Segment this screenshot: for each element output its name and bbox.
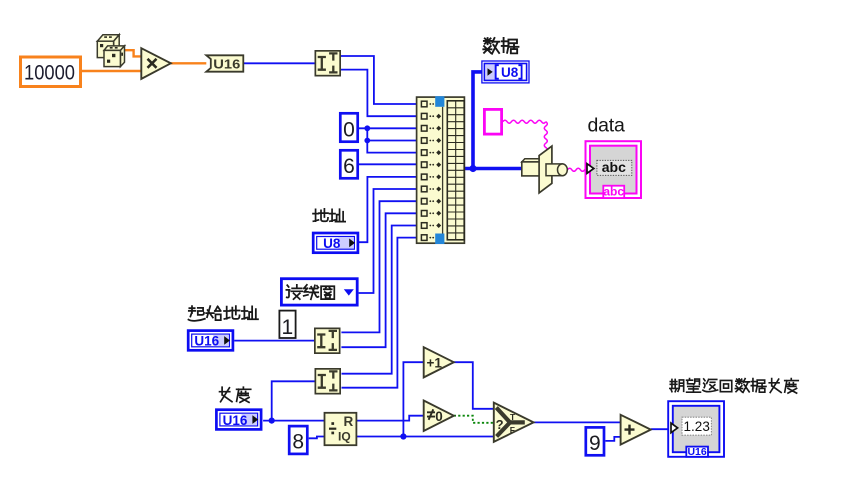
label 期望返回数据长度 bbox=[670, 379, 798, 394]
constant 6 bbox=[340, 150, 357, 178]
wire bbox=[473, 72, 482, 169]
wire bbox=[544, 122, 547, 152]
svg-text:1.23: 1.23 bbox=[684, 419, 710, 434]
add node bbox=[621, 415, 651, 445]
junction bbox=[269, 418, 275, 424]
svg-text:0: 0 bbox=[435, 409, 443, 424]
junction bbox=[469, 165, 476, 172]
control terminal U8 地址 bbox=[313, 233, 358, 253]
quotient and remainder node bbox=[325, 413, 357, 445]
wire bbox=[356, 436, 494, 438]
To U16 conversion node bbox=[206, 55, 243, 71]
svg-text:8: 8 bbox=[292, 431, 304, 454]
constant 0 bbox=[340, 113, 357, 141]
wire bbox=[367, 128, 416, 152]
increment node +1 bbox=[424, 347, 454, 377]
build array input terminals bbox=[421, 101, 427, 240]
svg-text:U8: U8 bbox=[323, 236, 341, 251]
build array resize handle top bbox=[435, 96, 444, 107]
wire bbox=[82, 70, 141, 72]
wire bbox=[341, 213, 416, 347]
junction bbox=[400, 433, 406, 439]
svg-text:10000: 10000 bbox=[24, 62, 75, 85]
svg-text:T: T bbox=[510, 412, 516, 422]
svg-text:U16: U16 bbox=[223, 413, 248, 428]
wire bbox=[359, 177, 417, 242]
select node bbox=[494, 403, 534, 442]
wire bbox=[171, 62, 207, 64]
not equal to zero node bbox=[424, 401, 454, 432]
wire bbox=[454, 416, 494, 423]
wire bbox=[356, 416, 423, 421]
wire bbox=[359, 163, 417, 165]
wire bbox=[605, 437, 620, 441]
svg-text:U8: U8 bbox=[501, 65, 519, 80]
svg-text:9: 9 bbox=[589, 432, 601, 455]
control terminal U16 起始地址 bbox=[188, 331, 233, 351]
wire bbox=[341, 201, 416, 332]
build array input dots and arrows bbox=[429, 103, 441, 238]
svg-text:R: R bbox=[344, 414, 354, 429]
svg-text:U16: U16 bbox=[194, 334, 219, 349]
wire bbox=[464, 167, 521, 171]
string constant (empty) bbox=[484, 109, 501, 134]
wire bbox=[503, 120, 546, 123]
label 起始地址 bbox=[188, 306, 257, 321]
wire bbox=[341, 56, 417, 104]
wire bbox=[243, 62, 314, 64]
build array node bbox=[417, 97, 465, 243]
label 数据 bbox=[483, 38, 518, 54]
wire bbox=[234, 340, 314, 342]
array indicator [U8] 数据 terminal bbox=[482, 61, 529, 83]
wire bbox=[403, 362, 423, 436]
junction bbox=[364, 125, 370, 131]
numeric indicator 期望返回数据长度 bbox=[668, 401, 724, 458]
svg-text:abc: abc bbox=[602, 159, 626, 175]
constant 1 bbox=[279, 311, 295, 339]
wire bbox=[309, 437, 325, 439]
wire bbox=[534, 421, 621, 423]
split number node U2 bbox=[315, 328, 340, 353]
svg-text:+1: +1 bbox=[427, 355, 443, 370]
wire bbox=[342, 238, 417, 388]
split number node U3 bbox=[315, 369, 340, 394]
wire bbox=[367, 140, 416, 142]
junction bbox=[364, 138, 370, 144]
svg-text:U16: U16 bbox=[213, 56, 240, 71]
svg-text:U16: U16 bbox=[687, 446, 706, 458]
constant 9 bbox=[586, 427, 604, 455]
enum constant 读线圈 bbox=[281, 279, 357, 305]
multiply node bbox=[141, 48, 171, 79]
svg-text:abc: abc bbox=[603, 185, 624, 199]
svg-text:6: 6 bbox=[343, 155, 355, 178]
label 地址 bbox=[313, 209, 345, 222]
byte array to string node bbox=[522, 146, 568, 193]
wire bbox=[125, 50, 142, 56]
constant 10000 bbox=[21, 57, 81, 87]
split number node U1 bbox=[315, 51, 340, 76]
wire bbox=[359, 189, 417, 293]
control terminal U16 长度 bbox=[216, 410, 261, 430]
wire bbox=[342, 226, 417, 374]
wire bbox=[263, 420, 324, 422]
wire bbox=[568, 168, 589, 171]
wire bbox=[341, 70, 417, 117]
string indicator data bbox=[586, 141, 642, 199]
svg-text:1: 1 bbox=[281, 316, 293, 339]
random number dice icon bbox=[97, 35, 124, 67]
svg-text:F: F bbox=[510, 425, 515, 435]
wire bbox=[651, 428, 671, 430]
wire bbox=[359, 127, 417, 129]
svg-text:0: 0 bbox=[343, 119, 355, 142]
build array resize handle bottom bbox=[435, 234, 444, 245]
svg-text:?: ? bbox=[496, 417, 504, 432]
wire bbox=[454, 362, 494, 409]
wire bbox=[272, 381, 315, 420]
svg-text:data: data bbox=[588, 114, 626, 136]
constant 8 bbox=[289, 426, 307, 454]
label 长度 bbox=[220, 387, 251, 402]
svg-text:IQ: IQ bbox=[338, 430, 351, 444]
